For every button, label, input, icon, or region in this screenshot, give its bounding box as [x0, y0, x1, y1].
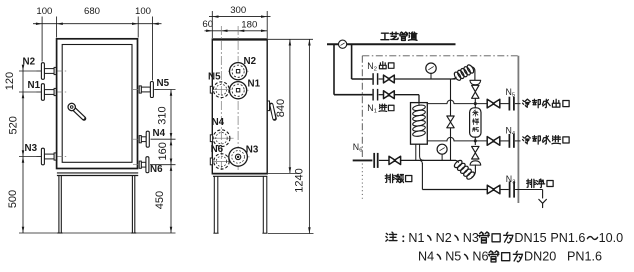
nozzle N2 end view (circle)	[228, 70, 249, 72]
svg-text:520: 520	[7, 116, 19, 134]
wire: drop from process line to N2 outlet row	[351, 44, 353, 79]
svg-text:N: N	[506, 126, 512, 136]
nozzle N1 (front, left wall)	[37, 91, 69, 93]
junction node	[474, 140, 477, 143]
cooling water outlet row (row 1)	[427, 103, 447, 105]
N1 inlet row: valve	[384, 91, 395, 99]
svg-text:N: N	[506, 87, 512, 97]
front view: left leg	[58, 176, 60, 234]
wire to cooler	[394, 94, 419, 96]
sample bottle (cai-yang-ping)	[470, 108, 481, 137]
svg-text:N6: N6	[211, 144, 224, 155]
front view: door handle	[74, 109, 84, 118]
front view: base frame double line	[57, 172, 138, 174]
N2 outlet row: wire	[352, 78, 373, 80]
svg-text:N4: N4	[212, 117, 225, 128]
svg-text:2: 2	[374, 66, 377, 72]
side view: dimension 1240	[268, 233, 314, 235]
svg-text:450: 450	[154, 191, 166, 209]
svg-text:N1: N1	[28, 80, 41, 91]
svg-text:N3: N3	[463, 231, 479, 245]
svg-text:500: 500	[7, 190, 19, 208]
label leng-que-shui-jin-kou (cooling water inlet)	[523, 136, 531, 144]
front view: right dimension chain 310/160/450	[170, 90, 172, 234]
svg-text:DN20: DN20	[524, 250, 556, 264]
svg-text:3: 3	[512, 179, 515, 185]
svg-text:N6: N6	[472, 250, 488, 264]
side view: right leg	[262, 176, 264, 233]
needle valve (sample bottle inlet)	[472, 85, 479, 98]
enclosure boundary: right solid line	[517, 56, 519, 203]
side view: base line	[213, 175, 267, 177]
nozzle N4 (front, right wall)	[133, 138, 160, 140]
svg-text:5: 5	[512, 93, 515, 99]
side view: door latch handle	[267, 101, 269, 111]
front view: door inner panel	[62, 45, 132, 163]
svg-text:N1: N1	[408, 231, 424, 245]
cooling water inlet row (row 2)	[427, 140, 447, 142]
svg-text:1: 1	[374, 109, 377, 115]
label: gong-yi-guan-dao (process piping)	[381, 33, 389, 39]
svg-text:N6: N6	[150, 164, 163, 175]
N1 inlet row: wire	[334, 94, 372, 96]
side view: dimension 60 / 180	[205, 30, 268, 32]
drain drop to flush header	[419, 160, 422, 163]
pressure gauge 2	[441, 154, 443, 160]
cooler coil	[418, 103, 420, 106]
flush drain row (pai-jing-kou)	[422, 189, 486, 191]
nozzle N3 (front, left wall)	[37, 156, 69, 158]
instrument circle on process line	[339, 40, 347, 48]
N2 outlet row: valve	[384, 75, 395, 83]
svg-text:6: 6	[359, 148, 362, 154]
N2 outlet row: flange pair	[372, 73, 374, 85]
pigtail coil 2 (to drain header)	[474, 165, 476, 168]
front view: cabinet outer shell	[57, 39, 138, 169]
bottom extension line	[19, 232, 176, 234]
nozzle N5 (front, right wall)	[133, 89, 160, 91]
side view: cabinet box	[212, 39, 267, 174]
svg-text:310: 310	[157, 106, 169, 124]
front view: top dimension line 100/680/100	[33, 23, 162, 25]
wire: drop from process line to N1 inlet row	[333, 44, 335, 94]
svg-text:N5: N5	[208, 72, 221, 83]
svg-text:N5: N5	[157, 78, 170, 89]
svg-text:120: 120	[4, 72, 16, 90]
process pipe line (top)	[327, 43, 456, 45]
funnel fitting above needle valve	[470, 80, 481, 85]
svg-text:DN15: DN15	[514, 231, 546, 245]
svg-text:PN1.6: PN1.6	[567, 250, 602, 264]
enclosure boundary: left dotted lower	[361, 164, 363, 201]
funnel Y symbol	[539, 199, 547, 207]
front view: left dimension chain 120/520/500	[22, 65, 24, 234]
svg-text:N3: N3	[246, 144, 259, 155]
enclosure boundary: top chain line	[362, 55, 517, 57]
wire to sample column	[394, 78, 455, 80]
svg-text:300: 300	[230, 5, 246, 16]
nozzle N4 end view (hidden/dashed circle)	[211, 137, 234, 139]
svg-text:100: 100	[135, 6, 151, 17]
nozzle N6 (front, right wall)	[133, 164, 160, 166]
svg-text:PN1.6: PN1.6	[550, 231, 585, 245]
nozzle N3 end view (circle)	[227, 156, 250, 158]
nozzle N1 end view (circle)	[228, 89, 249, 91]
drain header (pai-ning-kou row)	[353, 159, 373, 161]
funnel fitting below	[470, 161, 481, 165]
svg-text:60: 60	[202, 19, 213, 30]
N1 inlet row: flange pair	[372, 89, 374, 101]
side view: dimension 300	[209, 16, 271, 18]
svg-text:N2: N2	[244, 56, 257, 67]
enclosure boundary: left chain line	[361, 56, 363, 157]
note line 1	[386, 232, 397, 241]
label pai-jing-kou (flush drain)	[527, 179, 536, 187]
junction node	[474, 102, 477, 105]
svg-text:N2: N2	[436, 231, 452, 245]
needle valve (sample bottle outlet)	[474, 137, 476, 145]
svg-text:N5: N5	[445, 250, 461, 264]
svg-text:840: 840	[275, 99, 287, 117]
svg-text:680: 680	[84, 6, 100, 17]
pressure gauge 1	[430, 74, 432, 80]
label pai-ning-kou (condensate drain)	[385, 174, 394, 182]
label leng-que-shui-chu-kou (cooling water outlet)	[523, 99, 531, 107]
wire into bottle	[474, 98, 476, 108]
side view: dimension 840	[268, 38, 313, 40]
cooler outlet wires	[415, 144, 417, 160]
nozzle N2 (front, left wall)	[37, 70, 69, 72]
svg-text:N1: N1	[248, 78, 261, 89]
sample return drop line with needle valve	[450, 79, 452, 116]
sample cooler shell	[411, 103, 428, 145]
side view: vertical centerlines	[220, 26, 222, 170]
svg-text:180: 180	[241, 20, 257, 31]
svg-text:10.0: 10.0	[599, 231, 624, 245]
svg-text:1240: 1240	[293, 168, 305, 192]
pigtail coil 1 (to sample bottle top)	[452, 77, 457, 79]
nozzle N5 end view (hidden/dashed circle)	[212, 89, 232, 91]
svg-text:N2: N2	[23, 57, 36, 68]
side view: left leg	[213, 176, 215, 233]
svg-text:100: 100	[36, 6, 52, 17]
svg-text:N4: N4	[418, 250, 434, 264]
svg-text:160: 160	[157, 142, 169, 160]
nozzle N6 end view (hidden/dashed circle)	[211, 160, 231, 162]
front view: right leg	[131, 176, 133, 234]
svg-text:N4: N4	[153, 128, 166, 139]
svg-text:N3: N3	[25, 143, 38, 154]
